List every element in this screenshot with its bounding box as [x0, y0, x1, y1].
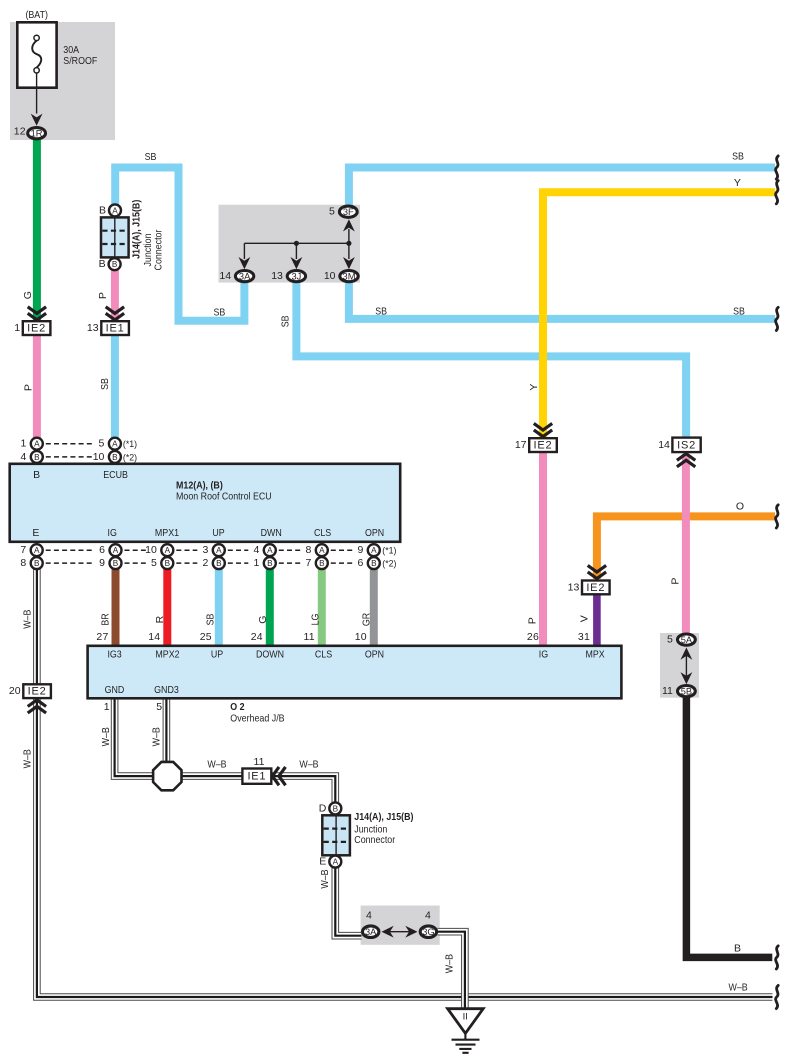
svg-text:1R: 1R	[31, 129, 43, 139]
svg-text:A: A	[267, 546, 273, 555]
junction block background 3A/3J/3M/3F	[219, 205, 361, 283]
svg-text:SB: SB	[214, 306, 226, 318]
junction connector J14(A),J15(B) lower box	[322, 815, 350, 855]
connector 3F pin 5	[329, 206, 357, 218]
label Junction lower	[354, 824, 387, 836]
svg-text:8: 8	[305, 544, 311, 556]
wire W-B from J/B GND pin 1 to splice octagon	[115, 698, 152, 776]
dashed link ECU bottom row B seg 2	[125, 562, 146, 564]
dashed link ECU bottom row A seg 5	[279, 549, 301, 551]
ECU top pin 5 A	[99, 438, 121, 450]
svg-text:B: B	[112, 453, 118, 462]
net label SB top right	[732, 151, 744, 163]
svg-text:A: A	[165, 546, 171, 555]
connector 3A pin 14	[219, 270, 253, 282]
connector 3A pin 4 (ground side)	[363, 926, 379, 938]
wire label GR rotated	[361, 612, 373, 626]
svg-text:SB: SB	[375, 306, 387, 318]
svg-text:W–B: W–B	[21, 610, 33, 629]
svg-text:Y: Y	[734, 177, 741, 189]
svg-text:SB: SB	[205, 614, 217, 626]
svg-text:B: B	[99, 204, 106, 216]
svg-text:MPX2: MPX2	[155, 648, 179, 660]
arrow up into 5A	[681, 648, 693, 660]
junction dot at 3J	[294, 241, 299, 246]
svg-text:A: A	[113, 546, 119, 555]
J/B pin number 10	[355, 631, 367, 643]
svg-text:V: V	[579, 615, 591, 622]
arrow into 3A	[382, 926, 394, 938]
wire BR brown ECU IG to J/B pin 27	[112, 564, 120, 646]
ECU pin label OPN	[365, 527, 384, 539]
note (*2) top	[123, 452, 137, 462]
pin B (D) of J14 lower	[319, 802, 342, 814]
net label P left	[23, 384, 35, 391]
svg-text:17: 17	[515, 439, 527, 451]
earth ground hatching	[452, 1033, 480, 1053]
svg-text:G: G	[257, 615, 269, 623]
svg-text:B: B	[267, 559, 273, 568]
label GND	[105, 684, 125, 696]
svg-text:10: 10	[145, 544, 157, 556]
svg-text:(*2): (*2)	[382, 559, 396, 569]
wire O orange from right break to IE2 pin 13	[597, 516, 775, 579]
break symbol W-B bottom right	[776, 985, 779, 1008]
net label B bottom right	[734, 942, 741, 954]
net label W-B near ground	[443, 954, 455, 973]
svg-text:30A: 30A	[63, 44, 79, 56]
svg-text:Connector: Connector	[354, 834, 395, 846]
svg-text:O: O	[736, 500, 744, 512]
svg-text:CLS: CLS	[315, 648, 332, 660]
svg-text:4: 4	[253, 544, 259, 556]
ECU bottom pin 5 B	[151, 557, 173, 569]
net label SB above 3M link	[375, 306, 387, 318]
svg-text:IG3: IG3	[107, 648, 121, 660]
svg-text:IE2: IE2	[586, 582, 605, 594]
ECU M12(A),(B) Moon Roof Control ECU box	[10, 464, 401, 542]
ECU pin label IG	[108, 527, 117, 539]
wire W-B from IE2 pin 20 along bottom to right break	[37, 699, 773, 998]
svg-text:Moon Roof Control ECU: Moon Roof Control ECU	[176, 491, 272, 503]
svg-text:ECUB: ECUB	[103, 469, 128, 481]
arrow into IE2 pin 17	[534, 423, 552, 436]
wire P pink from IS2 pin 14 to connector 5A	[682, 454, 690, 634]
svg-text:3M: 3M	[343, 272, 356, 282]
svg-text:31: 31	[578, 631, 590, 643]
net label SB top left	[145, 151, 157, 163]
label Junction rotated	[142, 233, 154, 266]
svg-text:E: E	[32, 527, 39, 539]
svg-text:B: B	[113, 559, 119, 568]
svg-text:IE2: IE2	[28, 686, 47, 698]
pin A (E) of J14 lower	[319, 856, 341, 868]
svg-text:9: 9	[99, 557, 105, 569]
label O 2	[230, 701, 244, 713]
wire W-B from IE1 pin 11 to J14 pin D	[271, 776, 335, 802]
J/B pin label MPX2	[155, 648, 179, 660]
J/B pin label IG3	[107, 648, 121, 660]
svg-text:A: A	[371, 546, 377, 555]
arrow into IE1 pin 13	[106, 307, 124, 320]
svg-text:25: 25	[200, 631, 212, 643]
label S/ROOF	[63, 55, 97, 67]
svg-text:11: 11	[254, 756, 265, 768]
svg-text:4: 4	[425, 909, 431, 921]
svg-text:P: P	[97, 292, 109, 299]
J/B pin number 31	[578, 631, 590, 643]
svg-text:IS2: IS2	[677, 439, 696, 451]
net label W-B left lower	[22, 749, 34, 768]
wire SB from junction 3J to connector IS2	[296, 278, 686, 439]
wire SB from junction 3M to right break	[349, 278, 775, 319]
svg-text:12: 12	[14, 126, 26, 138]
svg-text:3A: 3A	[365, 927, 377, 937]
svg-text:GR: GR	[361, 612, 373, 626]
junction dot at 3M	[346, 241, 351, 246]
net label P rotated IG	[527, 617, 539, 624]
dashed link ECU bottom row A seg 4	[228, 549, 249, 551]
J/B pin number 14	[148, 631, 160, 643]
link line between 5A and 5B	[685, 655, 687, 676]
label Connector rotated	[152, 229, 164, 270]
svg-text:II: II	[463, 1012, 468, 1023]
svg-text:P: P	[670, 577, 682, 584]
Overhead J/B O2 box	[88, 646, 622, 699]
wire label SB rotated	[205, 614, 217, 626]
svg-text:2: 2	[202, 557, 208, 569]
connector 5A pin 5	[667, 634, 695, 646]
ECU bottom pin 3 A	[202, 544, 224, 556]
svg-text:W–B: W–B	[100, 727, 112, 746]
svg-text:B: B	[319, 559, 325, 568]
svg-text:3G: 3G	[422, 927, 434, 937]
wire W-B from ECU pin E to IE2 pin 20	[33, 564, 41, 685]
J/B GND3 pin number 5	[156, 701, 162, 713]
svg-text:Connector: Connector	[152, 229, 164, 270]
connector block background 3A/3G	[361, 906, 440, 945]
svg-text:A: A	[34, 440, 40, 449]
J/B pin label MPX	[586, 648, 605, 660]
wire Y yellow from right break to connector IE2 pin 17	[543, 192, 775, 437]
svg-text:P: P	[23, 384, 35, 391]
connector IE1 pin 13	[87, 321, 129, 335]
net label W-B splice to IE1	[207, 758, 226, 770]
wire W-B from splice octagon to IE1 pin 11	[181, 772, 242, 780]
svg-text:B: B	[34, 559, 40, 568]
svg-text:11: 11	[662, 685, 673, 697]
net label W-B IE1 to J14	[299, 758, 318, 770]
ECU bottom pin 2 B	[202, 557, 224, 569]
svg-text:S/ROOF: S/ROOF	[63, 55, 97, 67]
wire B black from connector 5B to right break	[686, 694, 772, 957]
splice joint octagon	[153, 762, 181, 790]
arrow down into 5B	[681, 672, 693, 684]
svg-text:4: 4	[20, 451, 26, 463]
svg-text:5B: 5B	[681, 687, 692, 697]
net label SB mid right	[733, 306, 745, 318]
note (*1) top	[123, 439, 137, 449]
svg-text:(*1): (*1)	[123, 439, 137, 449]
svg-text:13: 13	[271, 270, 283, 282]
pin number 12 of 1R	[14, 126, 26, 138]
dashed link ECU bottom row A seg 6	[331, 549, 353, 551]
dashed link top pins A	[46, 443, 94, 445]
svg-text:4: 4	[366, 909, 372, 921]
svg-text:3: 3	[202, 544, 208, 556]
svg-text:8: 8	[20, 557, 26, 569]
svg-text:B: B	[734, 942, 741, 954]
dashed link ECU bottom row A seg 2	[125, 549, 146, 551]
svg-text:G: G	[22, 291, 34, 299]
J/B pin number 27	[96, 631, 108, 643]
svg-text:A: A	[34, 546, 40, 555]
svg-text:R: R	[154, 615, 166, 623]
junction connector J14(A),J15(B) upper box	[101, 217, 129, 257]
wire P pink from IE2 pin 1 to ECU pin 1A	[33, 335, 41, 446]
svg-text:14: 14	[219, 270, 231, 282]
svg-text:A: A	[333, 858, 339, 867]
dashed link ECU bottom row A seg 1	[46, 549, 94, 551]
ECU bottom pin 6 B	[357, 557, 379, 569]
ECU bottom pin 7 A	[20, 544, 42, 556]
wire LG light green ECU CLS to J/B pin 11	[318, 564, 326, 646]
svg-text:(*2): (*2)	[123, 452, 137, 462]
dashed link ECU bottom row B seg 5	[279, 562, 301, 564]
label Connector lower	[354, 834, 395, 846]
svg-text:7: 7	[305, 557, 311, 569]
svg-text:SB: SB	[99, 378, 111, 390]
svg-text:SB: SB	[145, 151, 157, 163]
ECU bottom pin 1 B	[253, 557, 275, 569]
svg-text:GND3: GND3	[154, 684, 179, 696]
ECU pin label MPX1	[155, 527, 179, 539]
svg-text:5: 5	[667, 634, 673, 646]
svg-text:7: 7	[20, 544, 26, 556]
wire G green from fuse 1R to IE2 pin 1	[33, 138, 41, 321]
wire GR gray ECU OPN to J/B pin 10	[370, 564, 378, 646]
connector IE2 pin 20	[9, 684, 51, 698]
svg-text:W–B: W–B	[22, 749, 34, 768]
svg-text:9: 9	[357, 544, 363, 556]
svg-text:B: B	[33, 469, 40, 481]
dashed link ECU bottom row A seg 3	[176, 549, 197, 551]
J/B pin label CLS	[315, 648, 332, 660]
svg-text:J14(A), J15(B): J14(A), J15(B)	[130, 200, 142, 259]
svg-text:A: A	[216, 546, 222, 555]
label M12(A), (B)	[176, 480, 223, 492]
svg-text:P: P	[527, 617, 539, 624]
wire W-B from connector 3G to body ground	[438, 932, 465, 1009]
connector IE2 pin 13	[568, 581, 610, 595]
arrow into IE1 pin 11	[272, 767, 285, 785]
arrow down into 3A	[239, 257, 251, 269]
svg-text:(BAT): (BAT)	[25, 9, 48, 21]
svg-text:B: B	[34, 453, 40, 462]
connector IE2 pin 17	[515, 438, 557, 452]
break symbol Y right	[776, 181, 779, 204]
arrow into IE2 pin 13	[588, 565, 606, 578]
svg-text:BR: BR	[100, 613, 112, 626]
break symbol SB top right	[776, 156, 779, 179]
svg-text:5: 5	[156, 701, 162, 713]
link line between 3A and 3G	[385, 931, 414, 933]
arrow out of IS2 pin 14	[677, 454, 695, 467]
svg-text:SB: SB	[732, 151, 744, 163]
fuse block background (BAT)	[10, 22, 115, 140]
ECU top pin 1 A	[20, 438, 42, 450]
arrow into 3G	[405, 926, 417, 938]
note (*2) bottom	[382, 559, 396, 569]
ECU bottom pin 9 B	[99, 557, 121, 569]
wire SB from IE1 pin 13 to ECU pin ECUB	[111, 335, 119, 446]
svg-text:IG: IG	[539, 648, 548, 660]
svg-text:E: E	[319, 856, 326, 868]
wire P pink from J14(A) pin B to IE1 pin 13	[111, 269, 119, 321]
ECU bottom pin 9 A	[357, 544, 379, 556]
svg-text:1: 1	[104, 701, 110, 713]
svg-text:CLS: CLS	[314, 527, 331, 539]
svg-text:5: 5	[329, 206, 335, 218]
svg-text:SB: SB	[280, 316, 292, 328]
net label O right	[736, 500, 744, 512]
svg-text:A: A	[319, 546, 325, 555]
connector IE2 pin 1	[14, 321, 50, 335]
wire W-B from J/B GND3 pin 5 to splice octagon	[163, 698, 171, 763]
break symbol B bottom right	[776, 946, 779, 969]
svg-text:D: D	[319, 802, 327, 814]
svg-text:6: 6	[357, 557, 363, 569]
svg-text:W–B: W–B	[319, 869, 331, 888]
svg-text:B: B	[333, 804, 339, 813]
svg-text:1: 1	[20, 438, 26, 450]
wire label G rotated	[257, 615, 269, 623]
svg-text:SB: SB	[733, 306, 745, 318]
label B inside ECU	[33, 469, 40, 481]
wire from fuse to connector 1R	[36, 73, 38, 114]
svg-text:DOWN: DOWN	[256, 648, 284, 660]
dashed link ECU bottom row B seg 3	[176, 562, 197, 564]
connector 3G pin 4 (ground side)	[420, 926, 436, 938]
wire label BR rotated	[100, 613, 112, 626]
svg-text:A: A	[112, 440, 118, 449]
wire label LG rotated	[310, 614, 322, 626]
pin B of J14 upper	[99, 258, 121, 270]
ECU bottom pin 7 B	[305, 557, 327, 569]
break symbol SB mid right	[776, 307, 779, 330]
connector 3J pin 13	[271, 270, 305, 282]
svg-text:14: 14	[148, 631, 160, 643]
ECU bottom pin 8 A	[305, 544, 327, 556]
label (BAT)	[25, 9, 48, 21]
wire SB ECU UP to J/B pin 25	[215, 564, 223, 646]
svg-text:W–B: W–B	[443, 954, 455, 973]
net label SB above 3A link	[214, 306, 226, 318]
svg-text:MPX1: MPX1	[155, 527, 179, 539]
J/B pin label UP	[211, 648, 223, 660]
fuse 30A S/ROOF	[17, 22, 56, 87]
svg-text:1: 1	[253, 557, 259, 569]
svg-text:W–B: W–B	[151, 727, 163, 746]
svg-text:1: 1	[14, 322, 20, 334]
wire SB from J14(A) pin A to junction 3A	[115, 168, 244, 321]
wire label R rotated	[154, 615, 166, 623]
connector 1R pin 12	[28, 128, 46, 139]
ECU pin label CLS	[314, 527, 331, 539]
svg-text:GND: GND	[105, 684, 125, 696]
J/B GND pin number 1	[104, 701, 110, 713]
connector 3M pin 10	[324, 270, 358, 282]
arrow out of IE2 pin 20	[28, 700, 46, 713]
svg-text:B: B	[216, 559, 222, 568]
svg-text:OPN: OPN	[365, 527, 384, 539]
arrow into connector 1R	[31, 114, 43, 126]
net label W-B left upper	[21, 610, 33, 629]
svg-text:W–B: W–B	[729, 982, 748, 994]
svg-text:W–B: W–B	[207, 758, 226, 770]
svg-text:LG: LG	[310, 614, 322, 626]
label 30A	[63, 44, 79, 56]
svg-text:B: B	[112, 260, 118, 269]
svg-text:(*1): (*1)	[382, 546, 396, 556]
net label P J14	[97, 292, 109, 299]
svg-text:10: 10	[355, 631, 367, 643]
svg-text:14: 14	[658, 439, 670, 451]
body ground II	[448, 1009, 484, 1034]
label J14(A), J15(B) lower	[354, 811, 413, 823]
ECU bottom pin 8 B	[20, 557, 42, 569]
J/B pin number 25	[200, 631, 212, 643]
J/B pin number 26	[527, 631, 539, 643]
pin A of J14 upper	[99, 204, 121, 216]
net label SB rotated 3J	[280, 316, 292, 328]
net label Y rotated	[528, 383, 540, 390]
svg-text:10: 10	[93, 451, 105, 463]
svg-text:3A: 3A	[239, 272, 251, 282]
pin number 4 above 3A	[366, 909, 372, 921]
label J14(A), J15(B) rotated	[130, 200, 142, 259]
svg-text:B: B	[371, 559, 377, 568]
connector IS2 pin 14	[658, 438, 700, 453]
net label W-B GND3	[151, 727, 163, 746]
svg-text:6: 6	[99, 544, 105, 556]
ECU bottom pin 4 A	[253, 544, 275, 556]
svg-text:UP: UP	[212, 527, 224, 539]
arrow into IE2 pin 1	[28, 307, 46, 320]
wire P pink from IE2 pin 17 to J/B pin 26 IG	[539, 452, 547, 646]
svg-text:26: 26	[527, 631, 539, 643]
wire W-B from J14 pin E to connector 3A	[335, 867, 361, 936]
J/B pin label DOWN	[256, 648, 284, 660]
net label W-B bottom right	[729, 982, 748, 994]
wire V violet from IE2 pin 13 to J/B pin 31 MPX	[593, 594, 601, 646]
net label W-B GND1	[100, 727, 112, 746]
svg-text:24: 24	[251, 631, 263, 643]
svg-text:IE1: IE1	[106, 323, 125, 335]
svg-text:O 2: O 2	[230, 701, 244, 713]
note (*1) bottom	[382, 546, 396, 556]
svg-text:IE2: IE2	[534, 440, 553, 452]
svg-text:Y: Y	[528, 383, 540, 390]
connector 5B pin 11	[662, 685, 695, 697]
wire G green ECU DWN to J/B pin 24	[266, 564, 274, 646]
svg-text:27: 27	[96, 631, 108, 643]
label Moon Roof Control ECU	[176, 491, 272, 503]
svg-text:20: 20	[9, 685, 21, 697]
wire R red ECU MPX1 to J/B pin 14	[163, 564, 171, 646]
net label V rotated	[579, 615, 591, 622]
svg-text:MPX: MPX	[586, 648, 605, 660]
